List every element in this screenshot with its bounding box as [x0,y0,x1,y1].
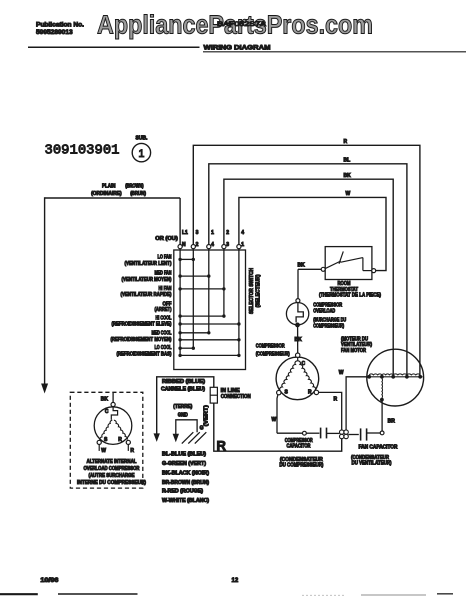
svg-text:(TERRE): (TERRE) [173,404,192,410]
svg-text:R: R [118,437,122,443]
compressor capacitor terminal [303,431,307,435]
fan capacitor plates [360,428,362,440]
wire blue cord [157,377,214,434]
svg-text:(REFROIDISSEMENT ELEVE): (REFROIDISSEMENT ELEVE) [112,321,172,327]
svg-text:COMPRESSOR: COMPRESSOR [256,344,285,350]
alternate R terminal [126,440,130,444]
alternate S stub wire [98,445,100,451]
svg-text:G: G [200,425,204,431]
svg-text:1: 1 [138,148,144,160]
svg-text:(VERT): (VERT) [203,405,209,426]
alternate start winding (to S) [100,420,112,440]
switch internal vertical term 1 [238,249,240,356]
alternate S terminal [97,440,101,444]
alternate R stub wire [127,445,129,451]
svg-text:2: 2 [226,230,229,236]
switch internal vertical L1 [179,249,181,356]
svg-text:BK-BLACK (NOIR): BK-BLACK (NOIR) [162,471,209,477]
svg-text:SUB.: SUB. [136,136,149,142]
footer faint line 2 [361,594,426,596]
svg-text:CONNECTION: CONNECTION [221,394,251,400]
brown lead arrowhead [41,384,48,394]
svg-text:S: S [104,437,108,443]
footer line left [0,593,38,595]
switch contact row MED COOL a [180,332,209,334]
svg-text:2: 2 [196,242,199,248]
wire brown cord: vertical lead [44,197,46,384]
wire compressor R to junction [319,392,342,430]
overload bottom junction dot [295,323,300,328]
thermostat blade [325,261,341,269]
switch contact row HI FAN [180,288,224,290]
switch contact row LO FAN [180,258,193,260]
svg-text:OR (OU): OR (OU) [155,236,178,242]
svg-text:BL-BLUE (BLEU): BL-BLUE (BLEU) [162,452,206,458]
svg-text:HI FAN: HI FAN [159,286,172,292]
svg-text:(BRUN): (BRUN) [130,191,146,197]
junction connector (4 circles) [340,430,344,434]
svg-text:DU VENTILATEUR): DU VENTILATEUR) [352,461,392,467]
in-line connection symbol [210,387,217,403]
svg-text:ALTERNATE INTERNAL: ALTERNATE INTERNAL [87,459,137,465]
svg-text:MED FAN: MED FAN [155,271,172,277]
overload internal element [296,303,303,323]
svg-text:Publication No.: Publication No. [36,21,84,28]
svg-text:R: R [217,438,227,453]
svg-text:4: 4 [211,242,214,248]
svg-text:BR: BR [388,418,396,424]
switch contact row MED COOL b [180,339,239,341]
svg-text:GND: GND [178,413,188,419]
svg-text:R: R [308,390,312,396]
svg-text:BL: BL [344,158,351,164]
svg-text:3: 3 [196,230,199,236]
compressor capacitor plates [306,432,319,434]
svg-text:W: W [101,448,106,454]
switch contact row LO COOL b [180,354,239,356]
svg-text:W: W [346,191,351,197]
svg-text:WIRING DIAGRAM: WIRING DIAGRAM [204,45,271,52]
svg-text:4: 4 [241,230,244,236]
wire BK switch-to-thermostat [298,268,321,270]
wire junction to fan capacitor [348,434,359,436]
switch internal vertical term 4 [208,249,210,333]
thermostat box [325,247,372,280]
alternate compressor top terminal [111,402,115,406]
header rule left [28,46,200,48]
svg-text:L1: L1 [182,230,188,236]
wire R (terminal 3 to fan motor) [193,145,420,376]
blue lead arrowhead [154,433,160,442]
switch contact row HI COOL b [180,323,239,325]
svg-text:R: R [130,448,134,454]
wire BL (terminal 1 to fan motor) [209,164,407,377]
svg-text:1: 1 [211,230,214,236]
svg-text:SELECTOR SWITCH: SELECTOR SWITCH [249,268,255,314]
svg-text:LO FAN: LO FAN [158,255,172,261]
wire overload to compressor [297,327,299,354]
svg-text:R-RED (ROUGE): R-RED (ROUGE) [162,489,203,495]
svg-text:(REFROIDISSEMENT MOYEN): (REFROIDISSEMENT MOYEN) [111,337,172,343]
svg-text:INTERNE DU COMPRESSEUR): INTERNE DU COMPRESSEUR) [77,480,146,486]
svg-text:FAN CAPACITOR: FAN CAPACITOR [359,445,398,451]
wire S to capacitor [276,395,279,434]
fan motor winding taps [367,375,371,379]
footer line mid [58,593,138,595]
SUB circle 1 [132,143,150,161]
svg-text:(VENTILATEUR RAPIDE): (VENTILATEUR RAPIDE) [121,292,172,298]
switch contact row HI COOL a [180,315,224,317]
svg-text:BK: BK [298,262,306,268]
svg-text:RIBBED (BLUE): RIBBED (BLUE) [162,379,205,385]
switch internal vertical term 2 [192,249,194,349]
thermostat left terminal [321,267,325,271]
wire to compressor capacitor [277,432,303,434]
wire BK (terminal 2 to fan motor) [224,179,393,377]
svg-text:(VENTILATEUR MOYEN): (VENTILATEUR MOYEN) [122,277,172,283]
overload top terminal [296,299,300,303]
svg-text:BK: BK [101,396,109,402]
compressor R terminal [314,390,318,394]
svg-text:(AUTRE SURCHARGE: (AUTRE SURCHARGE [89,473,136,479]
alternate compressor top wire [112,392,114,402]
svg-text:COMPRESSEUR): COMPRESSEUR) [313,323,344,329]
svg-text:(SELECTEUR): (SELECTEUR) [256,274,262,307]
svg-text:PLAIN: PLAIN [102,184,116,190]
svg-text:1: 1 [241,242,244,248]
fan capacitor terminal [380,431,384,435]
fan motor main winding [367,376,423,378]
selector switch box [174,250,246,370]
svg-text:G-GREEN (VERT): G-GREEN (VERT) [162,461,206,467]
wire W (terminal 4 to thermostat) [239,197,386,270]
footer faint dots 1 [302,594,345,596]
ground symbol slashes [195,432,207,443]
svg-text:C: C [105,409,109,415]
svg-text:(VENTILATEUR LENT): (VENTILATEUR LENT) [125,261,172,267]
compressor circle [276,357,319,400]
svg-text:W: W [272,417,277,423]
fan motor circle [367,349,424,406]
compressor overload circle [286,303,308,325]
alternate compressor dashed box [70,392,143,488]
wire brown cord: horizontal [45,197,181,199]
svg-text:OVERLOAD: OVERLOAD [313,309,335,315]
fan motor start winding [381,379,384,398]
svg-text:BAF052S7A: BAF052S7A [217,21,267,28]
svg-text:R: R [334,396,338,402]
svg-text:FAN MOTOR: FAN MOTOR [341,348,366,354]
thermostat bimetal tick [339,251,343,263]
compressor start winding (to S) [280,361,298,391]
alternate compressor circle [94,407,132,445]
switch contact row MED FAN [180,275,209,277]
thermostat right terminal [372,269,376,273]
compressor S terminal [277,390,281,394]
svg-text:R: R [344,139,348,145]
switch terminal circles [178,245,182,249]
svg-text:5995289013: 5995289013 [36,29,73,36]
footer dark segment [437,593,453,595]
svg-text:12: 12 [232,578,239,584]
svg-text:BK: BK [344,173,352,179]
svg-text:(ARRET): (ARRET) [155,307,172,313]
svg-text:(COMPRESSEUR): (COMPRESSEUR) [256,351,290,357]
wire junction to in-line connection (R) [214,403,342,451]
wire junction to fan motor (W) [346,377,367,430]
wire fan capacitor to motor [381,401,383,431]
svg-text:OVERLOAD COMPRESSOR: OVERLOAD COMPRESSOR [84,466,140,472]
svg-text:W: W [339,370,344,376]
alternate internal overload element [111,407,117,420]
svg-text:CANNELE (BLEU): CANNELE (BLEU) [161,387,205,393]
svg-text:3: 3 [226,242,229,248]
compressor run winding (to R) [298,361,316,391]
compressor stem [297,357,299,360]
ground bracket wire [176,420,197,434]
svg-text:DU COMPRESSEUR): DU COMPRESSEUR) [279,463,323,469]
svg-text:(ORDINAIRE): (ORDINAIRE) [91,191,122,197]
svg-text:(BROWN): (BROWN) [125,184,144,190]
svg-text:(REFROIDISSEMENT BAS): (REFROIDISSEMENT BAS) [117,352,172,358]
svg-text:309103901: 309103901 [45,143,120,159]
compressor C terminal [296,353,300,357]
svg-text:CAPACITOR: CAPACITOR [287,444,311,450]
svg-text:10/96: 10/96 [40,578,59,584]
alternate run winding (to R) [114,420,128,439]
switch internal vertical term 3 [223,249,225,316]
green lead arrowhead [173,434,179,443]
svg-text:(THERMOSTAT DE LA PIECE): (THERMOSTAT DE LA PIECE) [319,293,381,299]
wire L1 drop to switch [179,198,181,245]
header rule right / underline [203,51,466,53]
switch contact row LO COOL a [180,347,193,349]
svg-text:LO COOL: LO COOL [155,345,172,351]
thermostat contact arm [340,258,363,263]
svg-text:MED COOL: MED COOL [152,331,172,337]
svg-text:BR-BROWN (BRUN): BR-BROWN (BRUN) [162,480,209,486]
svg-text:W-WHITE (BLANC): W-WHITE (BLANC) [162,498,209,504]
